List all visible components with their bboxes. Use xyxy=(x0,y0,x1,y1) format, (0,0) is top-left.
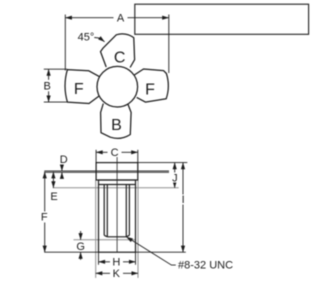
svg-text:E: E xyxy=(50,191,57,203)
svg-text:D: D xyxy=(60,154,68,166)
svg-text:H: H xyxy=(112,257,120,269)
svg-text:J: J xyxy=(172,173,178,185)
svg-text:F: F xyxy=(145,81,155,98)
svg-text:45°: 45° xyxy=(78,31,95,43)
svg-text:F: F xyxy=(74,81,84,98)
svg-text:B: B xyxy=(111,117,122,134)
svg-text:I: I xyxy=(182,194,185,206)
svg-text:F: F xyxy=(41,212,48,224)
svg-text:C: C xyxy=(114,49,126,66)
svg-text:B: B xyxy=(44,80,51,92)
svg-text:A: A xyxy=(117,13,125,25)
svg-text:G: G xyxy=(76,241,85,253)
svg-text:K: K xyxy=(113,268,121,280)
svg-text:#8-32 UNC: #8-32 UNC xyxy=(178,259,233,271)
svg-text:C: C xyxy=(111,147,119,159)
